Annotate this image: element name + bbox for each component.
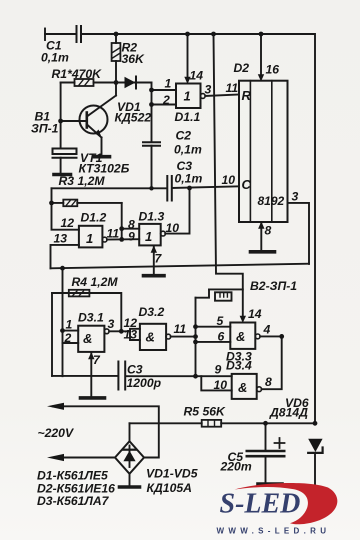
svg-text:КД105А: КД105А <box>147 481 192 495</box>
svg-text:ЗП-1: ЗП-1 <box>31 122 59 136</box>
svg-text:D1.2: D1.2 <box>81 211 107 225</box>
svg-text:D2: D2 <box>234 61 250 75</box>
svg-text:1: 1 <box>86 231 93 246</box>
svg-text:D3.4: D3.4 <box>226 359 252 373</box>
svg-text:1: 1 <box>165 77 172 91</box>
svg-text:D1.3: D1.3 <box>139 210 165 224</box>
svg-text:8: 8 <box>265 375 272 389</box>
svg-text:D1.1: D1.1 <box>175 110 201 124</box>
svg-text:2: 2 <box>162 93 170 107</box>
svg-text:0,1m: 0,1m <box>41 51 69 65</box>
svg-text:КД522: КД522 <box>115 111 152 125</box>
svg-text:10: 10 <box>166 221 180 235</box>
svg-text:3: 3 <box>292 190 299 204</box>
svg-text:6: 6 <box>218 330 225 344</box>
svg-text:11: 11 <box>226 81 239 95</box>
svg-text:3: 3 <box>205 83 212 97</box>
svg-text:13: 13 <box>124 328 138 342</box>
svg-text:R3 1,2М: R3 1,2М <box>59 174 106 188</box>
svg-text:10: 10 <box>214 378 228 392</box>
svg-text:R5 56K: R5 56K <box>184 405 227 419</box>
svg-text:8: 8 <box>265 224 272 238</box>
svg-text:~220V: ~220V <box>38 426 74 440</box>
svg-text:9: 9 <box>215 363 222 377</box>
svg-text:D1-К561ЛЕ5: D1-К561ЛЕ5 <box>37 469 108 483</box>
svg-text:R: R <box>242 88 252 103</box>
svg-text:10: 10 <box>222 173 236 187</box>
svg-text:14: 14 <box>248 307 262 321</box>
svg-text:2: 2 <box>64 331 72 345</box>
svg-text:1200p: 1200p <box>127 376 162 390</box>
svg-text:13: 13 <box>54 232 68 246</box>
svg-text:14: 14 <box>190 69 204 83</box>
svg-text:R4 1,2М: R4 1,2М <box>72 275 119 289</box>
svg-text:0,1m: 0,1m <box>175 172 203 186</box>
svg-text:VD1-VD5: VD1-VD5 <box>146 467 198 481</box>
svg-text:D3-К561ЛА7: D3-К561ЛА7 <box>37 494 110 508</box>
svg-text:1: 1 <box>184 89 191 104</box>
svg-text:&: & <box>238 380 247 395</box>
svg-text:220m: 220m <box>220 460 252 474</box>
svg-text:Д814Д: Д814Д <box>269 406 308 420</box>
svg-text:&: & <box>146 330 155 345</box>
svg-text:8192: 8192 <box>258 194 285 208</box>
svg-text:4: 4 <box>263 323 271 337</box>
svg-text:1: 1 <box>66 318 73 332</box>
svg-text:D3.2: D3.2 <box>139 305 165 319</box>
svg-text:D3.1: D3.1 <box>78 311 104 325</box>
svg-text:9: 9 <box>128 230 135 244</box>
svg-text:1: 1 <box>145 229 152 244</box>
svg-text:&: & <box>83 331 92 346</box>
svg-text:3: 3 <box>108 317 115 331</box>
svg-text:11: 11 <box>107 227 120 241</box>
svg-text:R1*470K: R1*470K <box>52 67 103 81</box>
svg-text:C: C <box>242 177 252 192</box>
svg-text:16: 16 <box>266 63 280 77</box>
svg-text:0,1m: 0,1m <box>174 143 202 157</box>
svg-text:&: & <box>236 329 245 344</box>
svg-text:5: 5 <box>217 314 224 328</box>
svg-text:C2: C2 <box>176 129 192 143</box>
svg-text:12: 12 <box>61 216 75 230</box>
svg-text:C3: C3 <box>127 363 143 377</box>
svg-text:В2-ЗП-1: В2-ЗП-1 <box>250 279 297 293</box>
svg-text:11: 11 <box>174 322 187 336</box>
svg-text:36K: 36K <box>122 52 146 66</box>
svg-text:S-LED: S-LED <box>220 489 301 520</box>
svg-text:WWW.S-LED.RU: WWW.S-LED.RU <box>217 527 331 536</box>
